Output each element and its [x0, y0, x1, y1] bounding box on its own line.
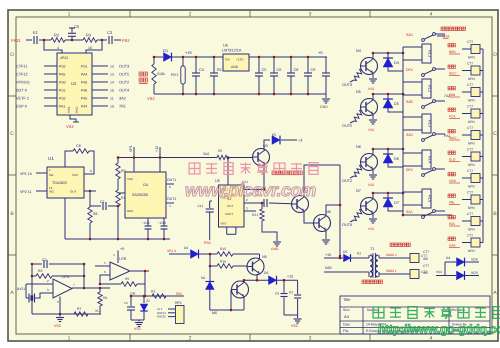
svg-text:S2A: S2A: [406, 210, 413, 214]
svg-text:R2: R2: [357, 252, 361, 256]
svg-text:VETF 2: VETF 2: [16, 97, 29, 101]
svg-text:C3: C3: [107, 30, 113, 35]
svg-text:PBL: PBL: [449, 201, 455, 205]
svg-text:7FE: 7FE: [119, 105, 126, 109]
svg-text:VCC: VCC: [72, 173, 79, 177]
svg-text:CT7: CT7: [467, 40, 473, 44]
svg-text:VSS: VSS: [221, 222, 227, 226]
svg-text:Z2: Z2: [146, 299, 150, 303]
svg-text:PA4: PA4: [81, 72, 87, 76]
svg-text:RL1: RL1: [428, 50, 433, 58]
svg-text:12: 12: [110, 65, 114, 69]
svg-text:CT7: CT7: [467, 148, 473, 152]
svg-text:PCA: PCA: [449, 115, 456, 119]
svg-text:RED: RED: [449, 50, 456, 54]
svg-text:S2D: S2D: [406, 33, 413, 37]
svg-text:D4: D4: [394, 61, 399, 65]
svg-text:D6B: D6B: [325, 266, 332, 270]
svg-text:R2: R2: [289, 291, 293, 295]
svg-text:Size: Size: [343, 308, 350, 312]
svg-text:BXZ1: BXZ1: [17, 287, 25, 291]
svg-text:NPN: NPN: [468, 206, 475, 210]
svg-text:VS2: VS2: [291, 324, 298, 328]
svg-text:10: 10: [110, 105, 114, 109]
svg-text:15: 15: [110, 89, 114, 93]
svg-text:VD6: VD6: [471, 258, 478, 262]
svg-text:PCC: PCC: [75, 106, 79, 113]
svg-text:PA5: PA5: [59, 72, 65, 76]
svg-text:OUT5: OUT5: [119, 73, 129, 77]
svg-text:CRD: CRD: [449, 179, 457, 183]
svg-text:AOUT: AOUT: [225, 212, 233, 216]
svg-text:E5: E5: [272, 133, 276, 137]
svg-text:OUT3: OUT3: [119, 65, 129, 69]
svg-text:CT7: CT7: [467, 234, 473, 238]
svg-text:VS2: VS2: [368, 183, 374, 187]
svg-text:VD3: VD3: [471, 271, 478, 275]
svg-text:D: D: [493, 52, 497, 58]
svg-text:+12: +12: [155, 146, 159, 152]
svg-text:http://www.go-gddq.com: http://www.go-gddq.com: [378, 322, 500, 336]
svg-text:DF4: DF4: [406, 68, 413, 72]
svg-text:P44: P44: [81, 104, 87, 108]
svg-text:R6: R6: [103, 296, 107, 300]
svg-text:R1: R1: [217, 68, 222, 72]
svg-text:File: File: [343, 329, 349, 333]
svg-text:C7: C7: [42, 258, 47, 262]
svg-text:VPROG: VPROG: [16, 81, 30, 85]
svg-text:R16: R16: [220, 260, 226, 264]
svg-text:+12V: +12V: [236, 58, 244, 62]
svg-text:ESP 9: ESP 9: [16, 105, 27, 109]
svg-text:VP1 10: VP1 10: [20, 172, 32, 176]
svg-text:N9: N9: [262, 255, 267, 259]
svg-text:R1: R1: [151, 290, 155, 294]
svg-text:PA5: PA5: [449, 222, 455, 226]
svg-text:C11: C11: [198, 204, 204, 208]
svg-text:SA2003D: SA2003D: [132, 193, 149, 197]
svg-text:CT7: CT7: [467, 212, 473, 216]
svg-text:U7B: U7B: [119, 257, 127, 261]
svg-text:D: D: [10, 52, 14, 58]
svg-text:PS1: PS1: [59, 88, 66, 92]
svg-text:OUT1: OUT1: [167, 178, 176, 182]
svg-text:U6: U6: [223, 44, 228, 48]
svg-text:R15: R15: [220, 247, 226, 251]
svg-text:NPN: NPN: [468, 163, 475, 167]
svg-text:IN1: IN1: [49, 173, 54, 177]
svg-text:WE: WE: [423, 257, 428, 261]
svg-text:Vin: Vin: [225, 58, 230, 62]
svg-text:RL4: RL4: [428, 156, 433, 164]
svg-text:C6: C6: [277, 68, 282, 72]
svg-text:R3C32: R3C32: [157, 315, 166, 319]
svg-text:N8: N8: [326, 210, 331, 214]
svg-text:Title: Title: [343, 297, 351, 302]
svg-text:VS2: VS2: [147, 96, 155, 101]
svg-text:WE: WE: [423, 271, 428, 275]
svg-text:4: 4: [430, 12, 433, 18]
svg-text:CTF11: CTF11: [16, 65, 27, 69]
svg-text:OUT2: OUT2: [119, 81, 129, 85]
svg-text:M6: M6: [212, 311, 217, 315]
svg-text:N5: N5: [356, 90, 361, 94]
svg-text:GND: GND: [320, 105, 328, 109]
svg-text:PS0: PS0: [59, 80, 66, 84]
svg-text:D1: D1: [163, 48, 169, 53]
svg-text:CT7: CT7: [423, 250, 429, 254]
svg-text:DF2: DF2: [406, 168, 413, 172]
svg-text:CT7: CT7: [467, 62, 473, 66]
svg-text:VS2: VS2: [134, 327, 141, 331]
svg-text:U1: U1: [48, 156, 54, 161]
svg-text:C6: C6: [76, 144, 81, 148]
svg-text:C: C: [493, 131, 497, 137]
svg-text:+15: +15: [325, 253, 331, 257]
svg-text:NPN: NPN: [468, 249, 475, 253]
svg-text:510k: 510k: [157, 72, 165, 76]
svg-text:C4: C4: [199, 68, 204, 72]
svg-text:XE1 3: XE1 3: [167, 249, 176, 253]
svg-text:R8: R8: [93, 212, 98, 216]
svg-text:3: 3: [309, 12, 312, 18]
svg-text:N4: N4: [356, 49, 361, 53]
svg-text:13: 13: [110, 73, 114, 77]
svg-text:OUT2: OUT2: [167, 197, 176, 201]
svg-text:C8: C8: [294, 68, 299, 72]
svg-text:OUT: OUT: [227, 204, 233, 208]
svg-text:VS2: VS2: [368, 227, 374, 231]
svg-text:D6: D6: [394, 157, 399, 161]
svg-text:VS2: VS2: [66, 124, 74, 129]
svg-text:T1: T1: [370, 247, 374, 251]
svg-text:PS2: PS2: [59, 96, 66, 100]
svg-text:P62: P62: [176, 292, 182, 296]
svg-text:1: 1: [68, 336, 71, 342]
svg-text:NPN: NPN: [468, 56, 475, 60]
svg-text:5RB: 5RB: [449, 93, 455, 97]
svg-text:11: 11: [110, 97, 114, 101]
svg-text:NPN: NPN: [468, 77, 475, 81]
svg-text:CT7: CT7: [423, 264, 429, 268]
svg-text:S2B: S2B: [406, 100, 413, 104]
svg-text:16: 16: [88, 46, 92, 50]
svg-text:VSS: VSS: [67, 107, 71, 113]
svg-text:ELO: ELO: [449, 158, 456, 162]
svg-text:C: C: [10, 131, 14, 137]
svg-text:GND: GND: [127, 209, 133, 213]
svg-text:GA5: GA5: [449, 244, 456, 248]
svg-text:3: 3: [309, 336, 312, 342]
svg-text:PS2: PS2: [59, 64, 66, 68]
svg-text:OUT4: OUT4: [342, 223, 352, 227]
svg-text:P46: P46: [81, 88, 87, 92]
svg-text:D5: D5: [394, 102, 399, 106]
svg-text:3A2: 3A2: [203, 152, 209, 156]
svg-text:R3: R3: [86, 33, 92, 38]
svg-text:+15: +15: [185, 50, 193, 55]
svg-text:CT7: CT7: [467, 169, 473, 173]
svg-text:Date: Date: [343, 323, 350, 327]
svg-text:TDA2822: TDA2822: [52, 181, 67, 185]
svg-text:D6: D6: [264, 271, 268, 275]
svg-text:www.picavr.com: www.picavr.com: [185, 180, 316, 200]
svg-text:P40: P40: [81, 80, 87, 84]
svg-text:U7A: U7A: [62, 275, 70, 279]
svg-text:1: 1: [68, 12, 71, 18]
svg-text:+5: +5: [120, 247, 124, 251]
svg-text:VP2 11: VP2 11: [20, 190, 32, 194]
svg-text:E1: E1: [33, 30, 39, 35]
svg-text:C9: C9: [311, 68, 316, 72]
svg-text:VDD: VDD: [127, 177, 133, 181]
svg-text:R2: R2: [54, 33, 60, 38]
svg-text:OUT2: OUT2: [342, 179, 352, 183]
svg-text:OUT5: OUT5: [342, 124, 352, 128]
svg-text:WCC: WCC: [449, 136, 457, 140]
svg-text:RL3: RL3: [428, 120, 433, 128]
svg-text:VS2: VS2: [368, 128, 374, 132]
svg-text:GND: GND: [271, 247, 279, 251]
svg-text:CT7: CT7: [467, 126, 473, 130]
svg-text:CTF12: CTF12: [16, 73, 28, 77]
svg-text:R21: R21: [252, 213, 258, 217]
svg-text:R3: R3: [38, 269, 43, 273]
svg-text:4P22: 4P22: [60, 56, 68, 60]
svg-text:D7: D7: [394, 201, 399, 205]
svg-text:NPN: NPN: [468, 120, 475, 124]
svg-text:OUT3: OUT3: [342, 83, 352, 87]
svg-text:OUT: OUT: [70, 190, 77, 194]
svg-text:S2A: S2A: [443, 35, 450, 39]
svg-text:12: 12: [49, 186, 53, 190]
svg-text:P45: P45: [81, 96, 87, 100]
svg-text:R7: R7: [77, 307, 82, 311]
svg-text:VS2: VS2: [368, 87, 374, 91]
svg-text:C9: C9: [275, 292, 279, 296]
svg-text:PS2: PS2: [122, 38, 130, 43]
svg-text:LM7812/1A: LM7812/1A: [222, 49, 242, 53]
svg-text:CT7: CT7: [467, 83, 473, 87]
svg-text:R5: R5: [218, 149, 222, 153]
svg-text:NPN: NPN: [468, 228, 475, 232]
svg-text:S6A8 1: S6A8 1: [386, 253, 397, 257]
svg-text:GA: GA: [143, 183, 149, 187]
svg-text:RL5: RL5: [428, 195, 433, 203]
svg-text:99D8 1: 99D8 1: [386, 269, 397, 273]
svg-text:+C12: +C12: [142, 221, 150, 225]
svg-text:RP1: RP1: [175, 301, 182, 305]
svg-text:VS2: VS2: [54, 324, 61, 328]
svg-text:S2D: S2D: [406, 133, 413, 137]
svg-text:NPN: NPN: [468, 99, 475, 103]
svg-text:D4: D4: [184, 246, 188, 250]
svg-text:PS21: PS21: [11, 38, 22, 43]
svg-text:R5: R5: [125, 277, 129, 281]
svg-text:C5: C5: [262, 68, 267, 72]
svg-text:+5: +5: [318, 50, 323, 55]
svg-text:D4: D4: [446, 256, 450, 260]
svg-text:+3: +3: [298, 139, 302, 143]
svg-text:+C13: +C13: [158, 221, 166, 225]
svg-text:PS1: PS1: [81, 64, 88, 68]
svg-text:RV1: RV1: [171, 73, 178, 77]
svg-text:D5: D5: [343, 250, 347, 254]
svg-text:2: 2: [189, 12, 192, 18]
svg-text:PA1: PA1: [59, 104, 65, 108]
svg-text:3A2: 3A2: [119, 97, 126, 101]
svg-text:C5: C5: [74, 24, 80, 29]
svg-text:N6: N6: [356, 145, 361, 149]
svg-text:4: 4: [57, 46, 59, 50]
svg-text:8: 8: [90, 169, 92, 173]
svg-text:RL2: RL2: [428, 85, 433, 93]
svg-text:CT7: CT7: [467, 191, 473, 195]
svg-text:A4: A4: [344, 314, 350, 319]
svg-text:N7: N7: [356, 189, 361, 193]
svg-text:U3: U3: [71, 81, 77, 86]
svg-text:4: 4: [430, 336, 433, 342]
svg-text:V04: V04: [436, 270, 442, 274]
svg-text:OUT4: OUT4: [119, 89, 129, 93]
svg-text:PS3: PS3: [204, 241, 211, 245]
svg-text:NPN: NPN: [468, 185, 475, 189]
svg-text:CT7: CT7: [467, 105, 473, 109]
svg-text:IN2: IN2: [49, 190, 54, 194]
svg-text:14: 14: [110, 81, 114, 85]
svg-text:2: 2: [189, 336, 192, 342]
svg-text:WCC: WCC: [449, 72, 457, 76]
svg-text:C7: C7: [100, 200, 105, 204]
svg-text:D6: D6: [201, 276, 205, 280]
svg-text:+15: +15: [287, 275, 293, 279]
svg-text:1n: 1n: [124, 301, 128, 305]
svg-text:NPN: NPN: [468, 142, 475, 146]
svg-text:VP1: VP1: [129, 145, 133, 152]
svg-text:GND: GND: [231, 65, 239, 69]
svg-text:SDT 9: SDT 9: [16, 89, 27, 93]
